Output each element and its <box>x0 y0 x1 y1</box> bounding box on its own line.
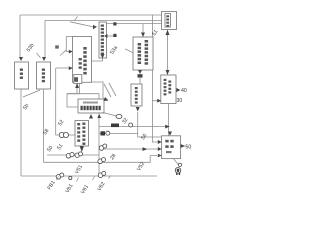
svg-text:40: 40 <box>181 88 187 94</box>
svg-text:50: 50 <box>186 145 192 151</box>
svg-text:30: 30 <box>177 98 183 104</box>
